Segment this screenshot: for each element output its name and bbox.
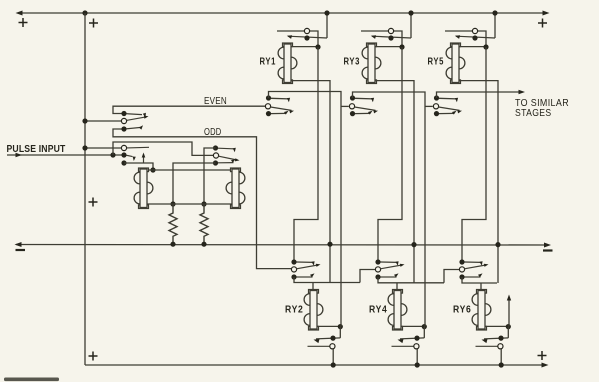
label RY1: [260, 57, 277, 68]
arrowhead on pulse input line: [16, 153, 23, 158]
contact RY6-1 lower fixed terminal: [459, 274, 464, 279]
wire RY1 NC contact line: [277, 31, 318, 47]
contact RA-1 lower arm: [127, 127, 142, 128]
svg-text:RY1: RY1: [260, 57, 277, 68]
arrowhead on RY5 armature: [455, 35, 460, 39]
wire RY5 coil top lead: [460, 46, 487, 48]
resistor R1: [169, 204, 177, 244]
contact RY5-2 lower arm: [439, 112, 454, 114]
polarity mark + top left outer: [19, 18, 28, 27]
relay coil A: [134, 168, 153, 209]
arrowhead on RY6-1 lower arm: [478, 273, 483, 277]
arrowhead on RY6-1 upper arm: [480, 261, 483, 266]
contact RY4-1 lower arm: [381, 276, 397, 278]
polarity mark + top right: [538, 19, 547, 28]
wire RY1 coil top lead: [292, 46, 319, 48]
contact RY6-1 movable arm: [464, 265, 486, 269]
arrowhead on RY4-1 upper arm: [396, 261, 399, 266]
arrowhead on RY6-1 movable arm: [484, 264, 489, 267]
wire ODD output line: [113, 129, 291, 269]
arrowhead on RY5-2 movable arm: [457, 110, 462, 113]
contact RY4-1 upper fixed terminal: [375, 259, 380, 264]
wire RY6 coil bottom lead: [486, 325, 509, 327]
relay coil RY6: [472, 290, 491, 331]
node junction pulse line / odd-common branch: [110, 152, 115, 157]
node junction top bus / left bus: [82, 10, 87, 15]
contact RY6-bottom armature terminal: [498, 336, 503, 341]
svg-text:RY2: RY2: [285, 304, 304, 315]
wire RY1-2 output to RY3 common and RY2 chain: [269, 92, 349, 327]
wire RY1 NC down to RY2 upper contact: [294, 47, 318, 260]
contact RY6-1 upper arm: [465, 262, 482, 263]
wire RB-1 common to left bus: [87, 147, 121, 149]
wire RY3 NC down to RY4 upper contact: [378, 47, 402, 260]
polarity mark + top left inner: [89, 19, 98, 28]
contact RY5 armature: [456, 36, 495, 38]
label RY6: [453, 304, 472, 315]
contact RB-2 movable arm: [219, 156, 237, 160]
svg-text:PULSE INPUT: PULSE INPUT: [7, 144, 66, 155]
label STAGES: [515, 108, 552, 119]
arrowhead on RY1-2 upper arm: [287, 98, 290, 103]
contact RY6-bottom NC line: [476, 345, 498, 347]
wire RY6 NC to bottom bus: [500, 349, 502, 365]
wire pulse input line: [7, 154, 124, 156]
arrowhead on RB-2 movable arm: [235, 158, 240, 161]
node junction RY2 coil bottom / chain: [338, 324, 343, 329]
node junction coil-A top lead: [150, 167, 155, 172]
wire RY2 NC to bottom bus: [332, 349, 334, 365]
contact RY2-bottom NC point: [330, 344, 335, 349]
arrowhead on RB-2 upper arm: [233, 148, 236, 153]
wire RY4 coil bottom lead: [402, 325, 425, 327]
contact RY3-2 common terminal: [349, 104, 354, 109]
contact RY6-1 common terminal: [459, 267, 464, 272]
contact RB-2 upper fixed terminal: [213, 145, 218, 150]
arrowhead on RY1 armature: [287, 35, 292, 39]
wire RY3 NC contact line: [361, 31, 402, 47]
polarity mark + bottom right: [538, 351, 547, 360]
wire middle bus: [16, 244, 548, 247]
node junction coil rail / resistor R1: [170, 201, 175, 206]
arrowhead on RY2-1 lower arm: [310, 273, 315, 277]
node junction top bus feed RY1: [324, 10, 329, 15]
contact RY3-2 lower arm: [355, 112, 370, 114]
contact RY4-1 common terminal: [375, 267, 380, 272]
arrowhead on RY4-1 lower arm: [394, 273, 399, 277]
wire bottom return bus: [85, 364, 545, 366]
contact RY5 NC point: [472, 28, 477, 33]
wire cascade to next even relay common: [360, 270, 375, 283]
wire top supply bus: [18, 12, 547, 14]
wire RY3 armature to top bus: [410, 14, 412, 38]
contact RY6-1 lower arm: [465, 276, 481, 278]
arrowhead right end of top bus: [543, 11, 550, 16]
node junction RY3 coil return / middle bus: [411, 242, 416, 247]
contact RY2-1 common terminal: [291, 267, 296, 272]
contact RA-1 movable arm: [127, 117, 147, 121]
wire RY3 coil bottom lead: [376, 81, 415, 283]
node junction top bus feed RY5: [492, 10, 497, 15]
relay coil RY1: [278, 43, 297, 84]
arrowhead on RY2-1 movable arm: [316, 264, 321, 267]
contact RY4-bottom NC point: [414, 344, 419, 349]
label RY3: [344, 57, 361, 68]
arrowhead on RY1-2 lower arm: [284, 111, 289, 115]
node junction coil rail / resistor R2: [201, 201, 206, 206]
arrowhead on RY1-2 movable arm: [289, 110, 294, 113]
contact RB-2 lower fixed terminal: [213, 160, 218, 165]
wire coil top rail: [147, 169, 232, 171]
polarity mark + left bottom: [89, 352, 98, 361]
arrowhead right end of middle bus: [544, 243, 551, 248]
contact RY6-1 upper fixed terminal: [459, 259, 464, 264]
contact RY3-2 lower fixed terminal: [350, 111, 355, 116]
wire RY1 coil bottom lead: [292, 81, 331, 283]
contact RY5 armature terminal: [472, 35, 477, 40]
node junction RY4 coil bottom / chain: [422, 324, 427, 329]
contact RB-1 middle arm: [127, 155, 133, 156]
contact RY4-1 upper arm: [381, 262, 398, 263]
label ODD: [204, 127, 222, 138]
arrowhead on RB-1 middle arm: [133, 157, 136, 162]
contact RB-1 movable arm: [127, 146, 149, 149]
contact RY1-2 movable arm: [271, 107, 292, 110]
wire RY3 coil top lead: [376, 46, 403, 48]
label RY4: [369, 304, 388, 315]
arrowhead on RA-1 upper arm: [143, 113, 146, 118]
wire RB-2 upper contact down to coil bottom rail: [204, 148, 216, 204]
contact RY3-2 upper arm: [355, 98, 373, 100]
node junction R1 / middle bus: [170, 242, 175, 247]
wire EVEN output line: [113, 106, 265, 113]
contact RY1 NC point: [304, 28, 309, 33]
node junction RY2 / bottom bus: [331, 362, 336, 367]
wire coil bottom rail: [147, 203, 232, 205]
arrowhead on RA-1 lower arm: [139, 125, 143, 129]
node junction RY1 coil top / NC: [315, 44, 320, 49]
contact RY1-2 upper fixed terminal: [266, 95, 271, 100]
wire RB-1 lower contact to coil A top: [124, 163, 153, 170]
arrowhead on RY6-bottom armature: [482, 339, 488, 343]
contact RY2-1 lower arm: [297, 276, 313, 278]
svg-text:RY6: RY6: [453, 304, 472, 315]
wire RY4 coil top stub: [396, 283, 398, 291]
node junction RY3 coil top / NC: [399, 44, 404, 49]
wire RA-1 common to left bus: [87, 120, 121, 122]
svg-text:EVEN: EVEN: [204, 96, 227, 107]
wire RY1 armature to top bus: [326, 14, 328, 38]
arrowhead to-similar-stages: [519, 90, 526, 95]
arrowhead on RY3 armature: [371, 35, 376, 39]
arrowhead on RY5-2 upper arm: [455, 98, 458, 103]
label PULSE INPUT: [7, 144, 66, 155]
wire RY6 armature drop: [507, 327, 509, 338]
node junction top bus feed RY3: [408, 10, 413, 15]
contact RA-1 upper fixed terminal: [121, 111, 126, 116]
contact RY5-2 common terminal: [433, 104, 438, 109]
contact RB-1 middle fixed terminal: [121, 152, 126, 157]
contact RY3 NC point: [388, 28, 393, 33]
wire RY5 NC contact line: [445, 31, 486, 47]
contact RY2-1 upper fixed terminal: [291, 259, 296, 264]
contact RY5-2 lower fixed terminal: [434, 111, 439, 116]
contact RB-2 lower arm: [218, 162, 234, 164]
contact RY1-2 lower fixed terminal: [266, 111, 271, 116]
wire RY4 NC to bottom bus: [416, 349, 418, 365]
contact RY6-bottom NC point: [498, 344, 503, 349]
contact RY1-2 lower arm: [271, 112, 286, 114]
node junction left bus / RA-1 common: [82, 118, 87, 123]
contact RY4-bottom armature: [400, 338, 424, 339]
dash mark below right middle-bus arrow: [543, 249, 553, 251]
arrowhead on RB-2 lower arm: [231, 159, 236, 163]
label TO SIMILAR: [515, 98, 569, 109]
label EVEN: [204, 96, 227, 107]
arrowhead left end of middle bus: [15, 242, 22, 247]
contact RY4-1 movable arm: [380, 265, 402, 269]
wire RY5 armature to top bus: [494, 14, 496, 38]
relay coil RY5: [446, 43, 465, 84]
wire RY3-2 output to RY5 common and RY4 chain: [353, 92, 433, 327]
wire RY2 coil top stub: [312, 283, 314, 292]
contact RY5-2 upper fixed terminal: [434, 95, 439, 100]
node junction RY1 coil return / middle bus: [327, 242, 332, 247]
contact RY1 armature terminal: [304, 35, 309, 40]
wire RY6 coil top stub: [480, 283, 482, 291]
node junction RY5 coil top / NC: [483, 44, 488, 49]
contact RY3-2 movable arm: [355, 107, 376, 110]
contact RY3 armature terminal: [388, 35, 393, 40]
contact RY2-1 upper arm: [297, 262, 314, 263]
contact RY3 armature: [372, 36, 411, 38]
node junction RY6 / bottom bus: [499, 362, 504, 367]
wire RY6 chain continuation arrow: [508, 297, 510, 327]
wire RY4 armature drop: [423, 327, 425, 338]
polarity mark + left middle: [89, 198, 98, 207]
arrowhead on RY4-bottom armature: [398, 339, 404, 343]
contact RY4-bottom NC line: [392, 345, 414, 347]
contact RY2-1 movable arm: [296, 265, 318, 269]
relay coil B: [226, 168, 245, 209]
relay coil RY3: [362, 43, 381, 84]
contact RB-2 common terminal: [213, 153, 218, 158]
contact RY1 armature: [288, 36, 327, 38]
wire RY5-2 output to similar stages: [437, 92, 522, 98]
contact RB-1 lower fixed terminal: [121, 160, 126, 165]
contact RY2-1 lower fixed terminal: [291, 274, 296, 279]
contact RA-1 lower fixed terminal: [121, 126, 126, 131]
arrowhead on RY2-1 upper arm: [312, 261, 315, 266]
contact RY5-2 movable arm: [439, 107, 460, 110]
node junction RY6 coil bottom / chain: [506, 324, 511, 329]
wire RB-2 lower contact down to coil rail: [173, 163, 216, 204]
dash mark below left middle-bus arrow: [16, 249, 26, 251]
arrow up between contacts: [142, 153, 146, 164]
contact RY3-2 upper fixed terminal: [350, 95, 355, 100]
node junction left bus / RB-1 common: [82, 145, 87, 150]
contact RY2-bottom armature: [316, 338, 340, 339]
scan smudge bottom-left corner: [4, 378, 59, 382]
svg-text:RY5: RY5: [428, 57, 445, 68]
wire RY4 lower contact / coil-top rail: [378, 277, 444, 283]
relay coil RY4: [388, 290, 407, 331]
svg-text:RY3: RY3: [344, 57, 361, 68]
contact RY4-1 lower fixed terminal: [375, 274, 380, 279]
arrowhead on RY3-2 lower arm: [368, 111, 373, 115]
contact RY1-2 common terminal: [265, 104, 270, 109]
arrowhead on RY3-2 movable arm: [373, 110, 378, 113]
contact RB-1 common terminal: [121, 145, 126, 150]
arrowhead right end of bottom bus: [542, 363, 549, 368]
contact RY2-bottom armature terminal: [330, 336, 335, 341]
contact RY6-bottom armature: [484, 338, 508, 339]
svg-text:STAGES: STAGES: [515, 108, 552, 119]
contact RY4-bottom armature terminal: [414, 336, 419, 341]
wire RY2 lower contact / coil-top rail: [294, 277, 360, 283]
contact RA-1 common terminal: [121, 118, 126, 123]
node junction RY4 / bottom bus: [415, 362, 420, 367]
wire RY2 coil bottom lead: [318, 325, 341, 327]
arrowhead on RA-1 movable arm: [144, 116, 149, 119]
wire RY6 lower contact / coil-top rail: [462, 277, 497, 283]
wire RY2 armature drop: [339, 327, 341, 338]
relay coil RY2: [304, 290, 323, 331]
contact RY1-2 upper arm: [271, 98, 289, 100]
resistor R2: [200, 204, 208, 244]
wire cascade to next even relay common: [444, 270, 459, 283]
node junction R2 / middle bus: [201, 242, 206, 247]
contact RY2-bottom NC line: [308, 345, 330, 347]
svg-text:RY4: RY4: [369, 304, 388, 315]
contact RB-2 upper arm: [218, 147, 233, 150]
wire RY5 coil bottom lead: [460, 81, 499, 283]
contact RA-1 upper arm: [127, 113, 143, 116]
arrowhead on RY2-bottom armature: [314, 339, 320, 343]
arrowhead on RY5-2 lower arm: [452, 111, 457, 115]
arrowhead left end of top bus: [16, 11, 23, 16]
arrowhead on RY4-1 movable arm: [400, 264, 405, 267]
arrowhead RY6 chain continuation: [507, 295, 511, 301]
wire odd-common link: [113, 142, 213, 155]
node junction RY5 coil return / middle bus: [495, 242, 500, 247]
contact RY5-2 upper arm: [439, 98, 457, 100]
wire RY5 NC down to RY6 upper contact: [462, 47, 486, 260]
arrowhead on RY3-2 upper arm: [371, 98, 374, 103]
wire left vertical bus: [84, 13, 86, 365]
label RY2: [285, 304, 304, 315]
label RY5: [428, 57, 445, 68]
